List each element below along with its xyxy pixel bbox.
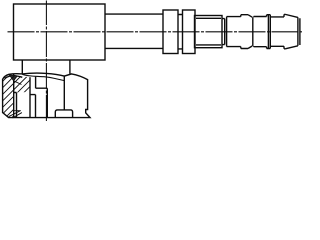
horizontal centerline (8, 31, 303, 33)
neck to nut left line (21, 60, 23, 74)
groove edge D (267, 15, 269, 49)
nut outline (3, 73, 90, 117)
bore bottom chamfer diagonals (9, 111, 22, 118)
nut bore steps (14, 77, 48, 118)
barb B2 (254, 17, 267, 47)
barb B2 lip (267, 15, 271, 49)
rib R1 (163, 10, 178, 54)
barb B1 lip (241, 15, 252, 49)
top face chamfer arc (22, 74, 64, 80)
nut hex face line left (13, 74, 15, 118)
nut hex face line right (63, 76, 65, 110)
section hatch lines (0, 66, 54, 119)
hex section (195, 16, 223, 48)
flare seat wedge (9, 75, 17, 81)
seat diagonal (14, 81, 22, 85)
neck to nut right line (69, 60, 71, 74)
tube stub (55, 110, 72, 118)
body block (14, 4, 106, 60)
barb B4 tip taper (284, 14, 298, 48)
tip face (298, 17, 300, 45)
barb B3 flat (270, 17, 284, 46)
step cylinder (105, 14, 163, 48)
groove edge C (252, 17, 254, 46)
groove edge E (269, 15, 271, 49)
rib gap (178, 15, 183, 49)
barb B1 (227, 17, 241, 47)
groove ring edge A (224, 19, 226, 45)
groove ring edge B (226, 17, 228, 47)
rib R2 (183, 10, 196, 54)
vertical centerline (45, 1, 47, 123)
neck behind barbs (222, 19, 225, 45)
flare seat lens (5, 76, 23, 79)
nut thread bore line (29, 77, 31, 118)
